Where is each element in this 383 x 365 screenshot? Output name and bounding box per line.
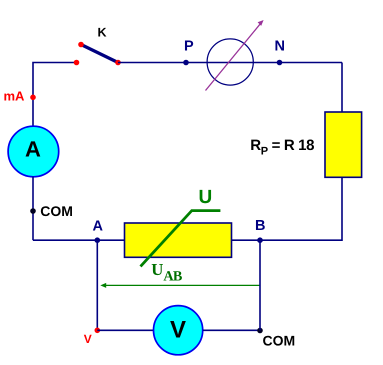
wire ammeter down to bottom-left corner bbox=[32, 177, 34, 241]
wire red dot to voltmeter bbox=[97, 329, 153, 331]
svg-text:B: B bbox=[255, 218, 265, 234]
svg-text:A: A bbox=[93, 219, 104, 235]
wire node A down to voltmeter row bbox=[96, 240, 98, 330]
svg-text:COM: COM bbox=[40, 203, 73, 219]
resistor RP body bbox=[325, 112, 362, 177]
wire node B to rheostat bbox=[232, 239, 261, 241]
UAB measurement arrow (green, pointing left) bbox=[100, 283, 260, 288]
svg-text:K: K bbox=[98, 25, 107, 39]
node: COM terminal dot (bottom) bbox=[257, 328, 263, 334]
node B bbox=[257, 237, 263, 243]
node: red dot V terminal bbox=[95, 328, 101, 334]
wire rheostat to node A and left corner bbox=[33, 239, 125, 241]
svg-text:A: A bbox=[25, 136, 41, 161]
svg-text:U: U bbox=[199, 187, 213, 208]
voltmeter V body bbox=[154, 306, 203, 355]
svg-text:UAB: UAB bbox=[151, 260, 183, 285]
rheostat body bbox=[125, 223, 232, 257]
node: red dot mA terminal bbox=[30, 95, 36, 101]
galvanometer circle bbox=[207, 39, 253, 85]
node N bbox=[277, 60, 283, 66]
wire voltmeter to COM node bbox=[203, 329, 260, 331]
node A bbox=[95, 237, 101, 243]
switch K pivot red dot bbox=[115, 60, 121, 66]
svg-text:N: N bbox=[275, 39, 285, 55]
wire left-top vertical from ammeter to top rail bbox=[33, 63, 77, 127]
switch K blade bbox=[81, 45, 118, 63]
wire right vertical down to resistor bbox=[341, 63, 343, 113]
ammeter A body bbox=[8, 126, 59, 177]
svg-text:COM: COM bbox=[263, 332, 296, 348]
svg-text:RP = R 18: RP = R 18 bbox=[250, 137, 314, 158]
node: red contact dot left of switch bbox=[74, 60, 80, 66]
svg-text:P: P bbox=[184, 39, 194, 55]
switch K blade-end red dot bbox=[78, 42, 84, 48]
wire from resistor down then left to node B bbox=[260, 177, 342, 240]
svg-text:mA: mA bbox=[4, 89, 26, 104]
svg-text:V: V bbox=[84, 332, 92, 346]
wire top rail from switch to right corner bbox=[118, 62, 342, 64]
galvanometer needle (magenta arrow) bbox=[206, 20, 264, 91]
node P bbox=[183, 60, 189, 66]
wire node B down to COM node bbox=[259, 240, 261, 330]
node: COM terminal dot (ammeter) bbox=[30, 208, 36, 214]
rheostat wiper arrow (green) bbox=[141, 211, 221, 267]
svg-text:V: V bbox=[170, 317, 186, 344]
